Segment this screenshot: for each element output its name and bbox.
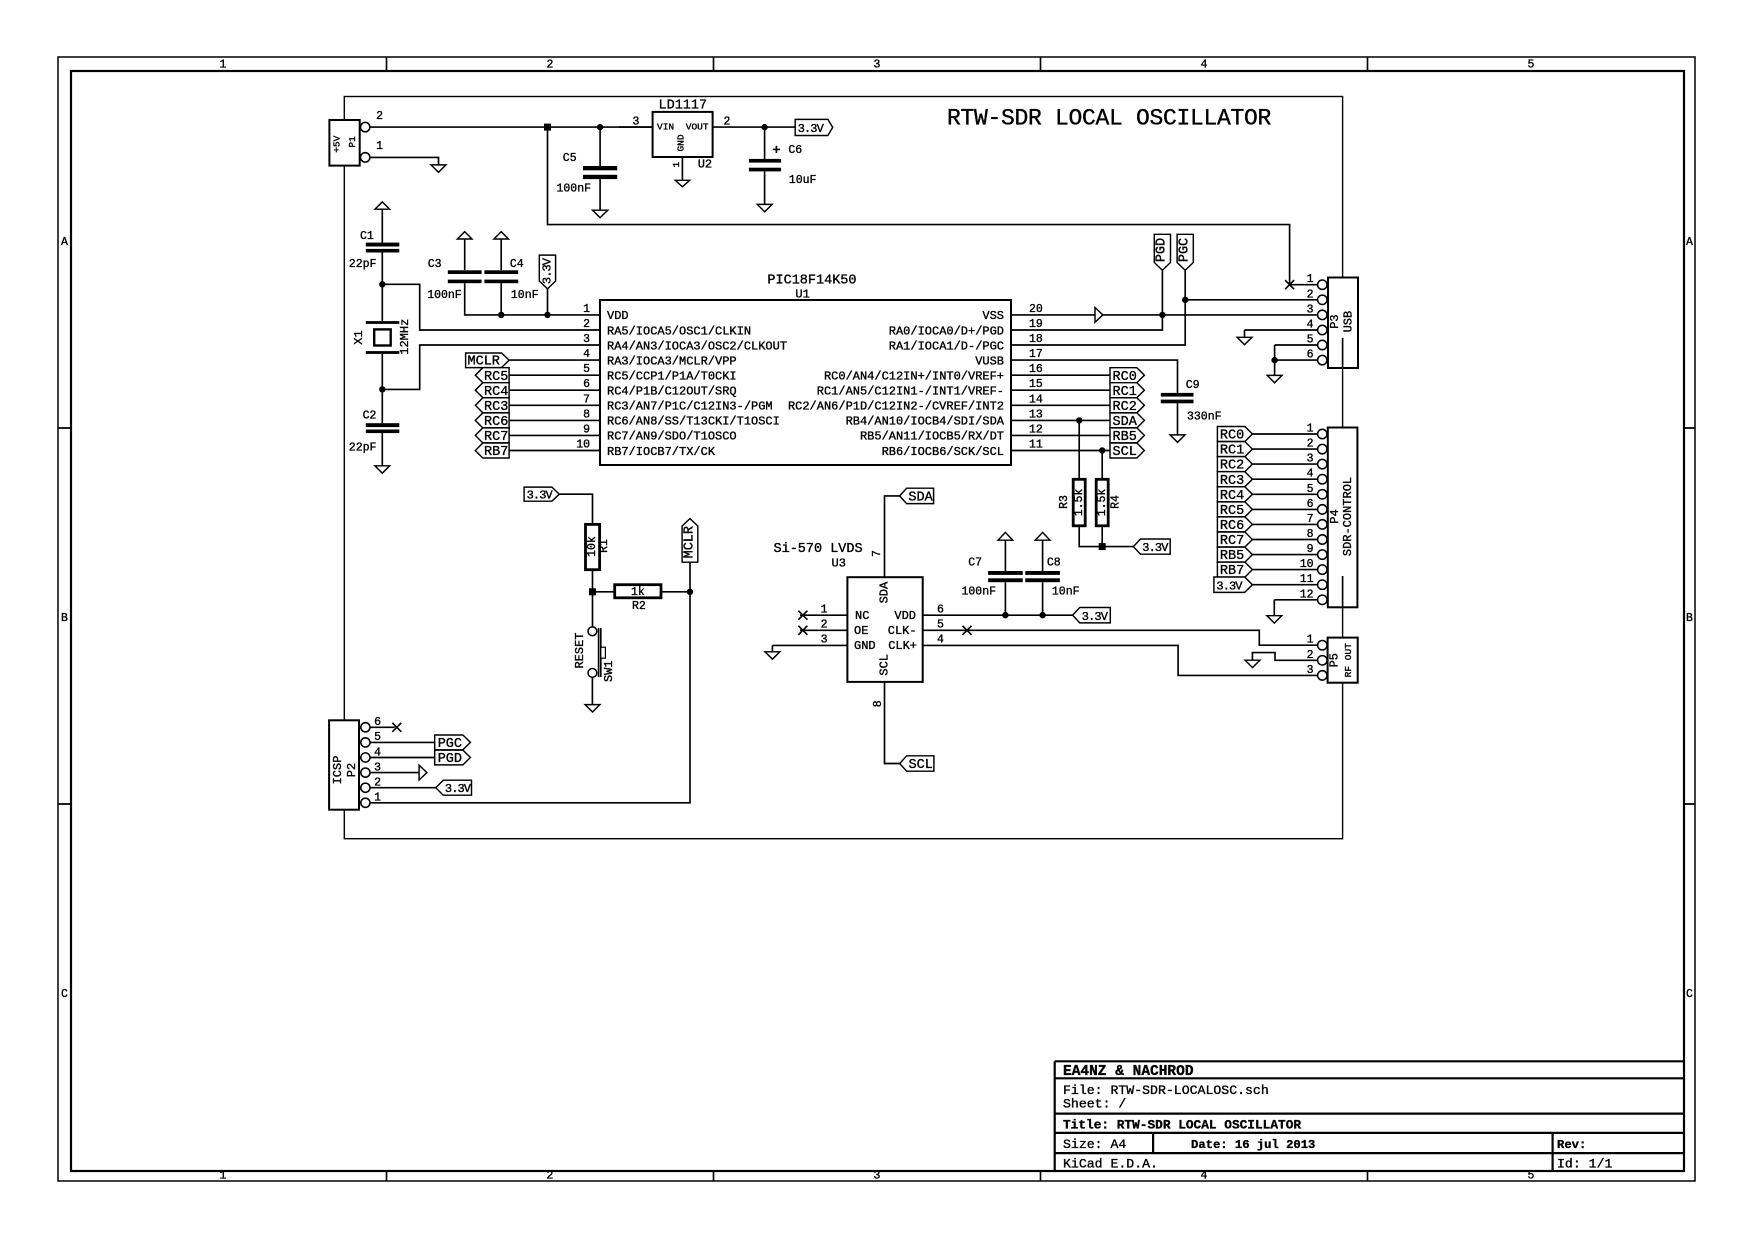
svg-text:C9: C9 [1186,379,1200,392]
svg-text:10: 10 [576,439,590,452]
global label RC5 at P4 pin6 [1217,502,1252,517]
ground symbol under P3 pin6 [1267,375,1282,382]
svg-text:10nF: 10nF [1052,586,1080,599]
svg-text:1k: 1k [631,586,645,599]
svg-text:2: 2 [724,115,731,128]
junction OSC2 node [379,386,385,392]
power arrow above C3 [457,232,472,239]
svg-text:PGD: PGD [1155,238,1170,262]
svg-text:3: 3 [583,333,590,346]
ground symbol at P1 pin1 [431,165,446,172]
wire P5 pin2 to ground [1252,653,1317,661]
svg-text:C5: C5 [563,152,577,165]
svg-text:RESET: RESET [573,632,587,668]
svg-text:SDA: SDA [908,491,933,506]
global label SDA at U1 pin13 [1110,413,1144,428]
global label MCLR at U1 pin4 [466,353,510,368]
ground symbol on VSS wire (pointing right) [1095,308,1103,323]
P3 pin 6 [1318,355,1327,364]
P2 pin 2 [361,783,370,792]
svg-text:RA4/AN3/IOCA3/OSC2/CLKOUT: RA4/AN3/IOCA3/OSC2/CLKOUT [607,339,787,353]
wire R1 to junction [592,570,594,592]
ground symbol at U3 pin3 [765,652,780,659]
svg-text:C4: C4 [510,258,524,271]
svg-text:1: 1 [1307,273,1314,286]
svg-text:SDA: SDA [877,581,891,603]
ground symbol at P5 pin2 [1245,660,1260,667]
connector P3 body [1328,278,1358,369]
svg-text:1.5k: 1.5k [1073,489,1086,517]
junction SCL at R4 [1099,447,1105,453]
svg-text:Size: A4: Size: A4 [1063,1137,1126,1152]
global label PGD (vertical) [1154,234,1170,270]
wire C4 to VDD rail [500,283,502,315]
U1 pin 18 wire to PGC net [1011,270,1185,345]
switch SW1 RESET [592,592,594,627]
svg-text:R4: R4 [1110,495,1123,509]
global label RC7 at U1 pin9 [475,428,509,443]
junction SDA at R3 [1076,417,1082,423]
svg-text:VDD: VDD [607,309,629,323]
svg-text:RF OUT: RF OUT [1343,643,1354,678]
crystal X1 [366,321,400,324]
svg-text:330nF: 330nF [1187,411,1222,424]
junction VDD at C7 [1002,612,1008,618]
border row ticks left [58,428,71,804]
P3 pin 5 [1318,340,1327,349]
power flag 3.3V (pull-ups) [1133,539,1170,554]
power arrow above C4 [494,232,509,239]
svg-text:5: 5 [1307,334,1314,347]
svg-text:B: B [61,612,68,625]
global label RC0 at P4 pin1 [1217,427,1252,442]
power flag 3.3V (regulator output) [795,119,833,135]
global label PGC at P2 [435,735,471,750]
svg-text:P5: P5 [1328,653,1342,667]
svg-text:RC6/AN8/SS/T13CKI/T1OSCI: RC6/AN8/SS/T13CKI/T1OSCI [607,415,780,429]
svg-text:2: 2 [547,59,554,72]
P5 pin 1 [1318,641,1327,650]
svg-text:8: 8 [1307,528,1314,541]
P3 pin 1 [1318,280,1327,289]
svg-text:RA1/IOCA1/D-/PGC: RA1/IOCA1/D-/PGC [889,339,1004,353]
svg-text:VUSB: VUSB [975,354,1004,368]
ground symbol under C5 [593,210,608,217]
junction 3.3V at C6 [761,124,767,130]
U3 pin 6 VDD wire [923,614,1073,616]
P2 pin 6 [361,723,370,732]
U1 pin 11 wire [1011,450,1110,452]
U3 pin 8 SCL wire [885,682,900,764]
svg-text:PIC18F14K50: PIC18F14K50 [767,273,856,288]
U3 pin 1 NC wire [800,614,847,616]
global label RC3 at U1 pin7 [475,398,509,413]
connector P2 ICSP body [329,720,359,809]
svg-text:2: 2 [1307,288,1314,301]
U1 pin 15 wire [1011,389,1110,391]
svg-text:P1: P1 [347,136,358,148]
svg-text:4: 4 [1201,59,1208,72]
svg-text:1: 1 [220,1170,227,1183]
U1 pin 5 wire [509,374,600,376]
svg-text:Title: RTW-SDR LOCAL OSCILLATO: Title: RTW-SDR LOCAL OSCILLATOR [1063,1117,1301,1132]
IC U1 PIC18F14K50 [600,300,1011,465]
svg-text:4: 4 [937,634,944,647]
P4 pin 3 [1318,459,1327,468]
wire +5V net from P1 pin2 to U2 VIN [370,126,653,128]
U3 pin 7 SDA wire [885,496,900,577]
U1 pin 10 wire [509,450,600,452]
svg-text:ICSP: ICSP [331,756,345,785]
svg-text:SCL: SCL [909,758,933,773]
svg-text:SW1: SW1 [602,660,616,682]
svg-text:15: 15 [1029,378,1043,391]
svg-text:6: 6 [937,604,944,617]
global label RC4 at P4 pin5 [1217,487,1252,502]
ground symbol at P3 pin4 [1237,337,1252,344]
wire MCLR flag down to P2 pin1 [370,562,690,803]
U2 pin 3 wire [619,126,653,128]
border row ticks right [1684,428,1695,804]
svg-text:11: 11 [1029,439,1043,452]
svg-text:RB7/IOCB7/TX/CK: RB7/IOCB7/TX/CK [607,445,716,459]
svg-text:100nF: 100nF [557,183,592,196]
svg-text:3: 3 [874,1170,881,1183]
svg-text:1: 1 [671,161,682,167]
global label SCL at U1 pin11 [1110,443,1144,458]
connector P1 [329,120,359,166]
P4 pin 10 [1318,565,1327,574]
svg-text:5: 5 [1307,483,1314,496]
svg-text:U3: U3 [832,557,846,571]
power flag 3.3V at R1 [524,487,559,501]
U1 pin 20 VSS wire to USB pin3 [1011,314,1318,316]
svg-text:RC3/AN7/P1C/C12IN3-/PGM: RC3/AN7/P1C/C12IN3-/PGM [607,400,773,414]
svg-text:P2: P2 [345,763,359,777]
svg-text:C1: C1 [360,230,374,243]
svg-text:RC2/AN6/P1D/C12IN2-/CVREF/INT2: RC2/AN6/P1D/C12IN2-/CVREF/INT2 [788,400,1004,414]
svg-text:RB5/AN11/IOCB5/RX/DT: RB5/AN11/IOCB5/RX/DT [860,430,1004,444]
U1 pin 14 wire [1011,404,1110,406]
svg-text:VOUT: VOUT [686,122,709,133]
svg-text:8: 8 [872,700,885,707]
svg-text:9: 9 [1307,543,1314,556]
global label SCL at U3 [900,756,934,771]
global label RB7 at U1 pin10 [475,443,509,458]
P4 pin 4 [1318,475,1327,484]
svg-text:R3: R3 [1058,495,1071,509]
svg-text:5: 5 [583,363,590,376]
svg-text:RA5/IOCA5/OSC1/CLKIN: RA5/IOCA5/OSC1/CLKIN [607,324,751,338]
no-connect X at P2 pin6 [392,723,401,732]
wire R2 to MCLR net [661,591,690,593]
wire C5 to ground [599,179,601,210]
capacitor C5 [599,127,601,166]
svg-text:RA3/IOCA3/MCLR/VPP: RA3/IOCA3/MCLR/VPP [607,354,737,368]
svg-text:1: 1 [821,604,828,617]
global label RB5 at U1 pin12 [1110,428,1144,443]
svg-text:C: C [1686,988,1693,1001]
resistor R4 [1101,451,1103,547]
svg-text:Id: 1/1: Id: 1/1 [1557,1157,1612,1172]
U3 pin 3 GND wire [772,645,847,651]
svg-text:12: 12 [1029,423,1043,436]
junction OSC1 node [379,281,385,287]
resistor R1 [586,524,600,569]
svg-text:Rev:: Rev: [1557,1138,1586,1152]
capacitor C6 (polarized) [764,127,766,159]
svg-text:RB4/AN10/IOCB4/SDI/SDA: RB4/AN10/IOCB4/SDI/SDA [846,415,1005,429]
junction VDD at C4 [498,312,504,318]
svg-text:VIN: VIN [657,122,674,133]
svg-text:C: C [61,988,68,1001]
global label RC1 at P4 pin2 [1217,442,1252,457]
regulator U2 LD1117 [653,112,713,157]
U3 pin 2 OE wire [800,629,847,631]
ground symbol under U2 [675,180,690,187]
wire C9 to ground [1177,403,1179,435]
U2 pin 2 wire [713,126,796,128]
svg-text:C2: C2 [363,410,377,423]
svg-text:3: 3 [1307,453,1314,466]
no-connect X on CLK- wire [963,626,972,635]
capacitor C2 [366,423,400,427]
capacitor C4 [484,270,518,274]
svg-text:4: 4 [1201,1170,1208,1183]
svg-text:RC1/AN5/C12IN1-/INT1/VREF-: RC1/AN5/C12IN1-/INT1/VREF- [817,385,1004,399]
svg-text:3.3V: 3.3V [527,489,554,503]
wire R3/R4 to 3.3V flag [1102,546,1133,548]
wire C6 to ground [764,171,766,204]
global label RC4 at U1 pin6 [475,383,509,398]
U1 pin 4 wire from MCLR flag [509,359,600,361]
ground symbol under C6 [757,204,772,211]
P3 pin 4 [1318,325,1327,334]
svg-text:R2: R2 [632,600,646,613]
svg-text:NC: NC [855,609,869,623]
U2 pin 1 (GND) [681,157,683,180]
svg-text:12MHz: 12MHz [398,319,412,355]
global label RB5 at P4 pin9 [1217,547,1252,562]
junction MCLR divider (square) [589,588,596,595]
P2 pin 5 [361,738,370,747]
svg-text:3.3V: 3.3V [798,122,825,136]
U1 pin 8 wire [509,419,600,421]
svg-text:3.3V: 3.3V [1082,610,1109,624]
svg-text:7: 7 [1307,513,1314,526]
global label PGC (vertical) [1177,234,1193,270]
global label RC5 at U1 pin5 [475,368,509,383]
connector P5 body [1328,638,1358,683]
svg-text:22pF: 22pF [349,258,377,271]
svg-text:PGC: PGC [1178,238,1193,262]
no-connect X on USB VBUS corner [1285,280,1294,289]
svg-text:2: 2 [1307,438,1314,451]
ground symbol at P2 pin3 (pointing right) [419,765,427,780]
P4 pin 5 [1318,490,1327,499]
svg-text:8: 8 [583,408,590,421]
wire +5V branch down and across to USB VBUS [548,127,1318,285]
svg-text:U1: U1 [795,288,809,302]
junction +5V at C5 stem [597,124,603,130]
ground symbol under C9 [1170,435,1185,442]
svg-text:Date: 16 jul 2013: Date: 16 jul 2013 [1191,1138,1315,1152]
wire X1 to C2 [381,354,383,423]
svg-text:VDD: VDD [894,609,916,623]
svg-text:C3: C3 [428,258,442,271]
svg-text:2: 2 [583,318,590,331]
svg-text:EA4NZ & NACHROD: EA4NZ & NACHROD [1063,1064,1194,1080]
no-connect X at U3 pin1 [798,611,807,620]
title block frame [1055,1061,1684,1171]
svg-text:13: 13 [1029,408,1043,421]
svg-text:2: 2 [821,619,828,632]
svg-text:RC7/AN9/SDO/T1OSCO: RC7/AN9/SDO/T1OSCO [607,430,737,444]
svg-text:3: 3 [1307,664,1314,677]
svg-text:1: 1 [374,792,381,805]
svg-text:VSS: VSS [982,309,1004,323]
svg-text:3.3V: 3.3V [445,782,472,796]
power flag 3.3V (vertical, above U1 VDD) [539,255,555,289]
wire C8 to VDD [1042,582,1044,615]
svg-text:2: 2 [1307,649,1314,662]
resistor R2 [615,585,661,598]
wire CLK+ to P5 pin3 [923,645,1318,675]
svg-text:18: 18 [1029,333,1043,346]
svg-text:P3: P3 [1328,314,1342,328]
global label RC7 at P4 pin8 [1217,532,1252,547]
U1 right pin numbers [1029,303,1043,452]
svg-text:MCLR: MCLR [682,526,697,558]
power flag 3.3V at U3 VDD [1073,608,1111,623]
wire CLK- to P5 pin1 [923,630,1318,645]
P2 pin 4 [361,753,370,762]
ground symbol at P4 pin12 [1267,616,1282,623]
global label PGD at P2 [435,750,471,765]
power arrow above C1 [375,202,390,209]
svg-text:3.3V: 3.3V [1216,579,1243,593]
P4 pin 1 [1318,429,1327,438]
P4 pin 6 [1318,505,1327,514]
global label SDA at U3 [900,488,934,503]
svg-text:7: 7 [871,550,884,557]
svg-text:4: 4 [1307,319,1314,332]
U1 pin 7 wire [509,404,600,406]
svg-text:16: 16 [1029,363,1043,376]
svg-text:RC4/P1B/C12OUT/SRQ: RC4/P1B/C12OUT/SRQ [607,385,737,399]
P4 pin 12 [1318,595,1327,604]
resistor R3 [1079,420,1102,546]
connector P3 USB pin wires [1185,300,1317,376]
svg-text:12: 12 [1300,588,1314,601]
global label RB7 at P4 pin10 [1217,562,1252,577]
svg-text:+5V: +5V [331,135,342,152]
P1 pin 2 [361,122,370,131]
svg-text:10nF: 10nF [511,289,539,302]
svg-text:3.3V: 3.3V [1142,541,1169,555]
svg-text:11: 11 [1300,573,1314,586]
svg-text:USB: USB [1341,311,1355,333]
svg-text:10uF: 10uF [789,174,817,187]
power arrow above C8 [1035,532,1050,540]
svg-text:RB7: RB7 [484,445,508,460]
IC U3 Si-570 [847,577,922,682]
U1 left pin names [607,309,787,459]
wire OSC1 to U1 pin2 [382,284,600,330]
capacitor C7 [988,571,1023,575]
svg-text:4: 4 [583,348,590,361]
svg-text:17: 17 [1029,348,1043,361]
svg-text:A: A [61,236,68,249]
svg-text:C6: C6 [788,144,802,157]
P3 pin 2 [1318,295,1327,304]
ground symbol under SW1 [585,705,600,712]
U1 pin 16 wire [1011,374,1110,376]
power flag 3.3V at P4 pin11 [1214,577,1253,592]
global label RC6 at U1 pin8 [475,413,509,428]
wire C1 to X1 [381,253,383,322]
svg-text:SDR-CONTROL: SDR-CONTROL [1341,477,1355,556]
svg-text:SCL: SCL [877,654,891,676]
power arrow above C7 [998,532,1013,540]
junction VDD at 3.3V flag [544,312,550,318]
P4 pin 8 [1318,535,1327,544]
junction VDD at C8 [1039,612,1045,618]
P5 pin 2 [1318,656,1327,665]
svg-text:2: 2 [376,110,383,123]
wire SW1 to ground [591,677,593,704]
wire P1 pin1 to ground [370,157,439,165]
svg-text:9: 9 [583,423,590,436]
svg-text:C8: C8 [1047,557,1061,570]
U1 right pin names [788,309,1005,459]
global label RC6 at P4 pin7 [1217,517,1252,532]
wire boundary through P4 [1342,576,1344,607]
U1 pin 12 wire [1011,434,1110,436]
svg-text:SCL: SCL [1113,445,1137,460]
U1 pin 19 wire to PGD net [1011,270,1162,330]
svg-text:GND: GND [676,134,687,151]
svg-text:1.5k: 1.5k [1096,489,1109,517]
svg-text:P4: P4 [1328,509,1342,523]
svg-text:GND: GND [854,639,876,653]
svg-text:1: 1 [220,59,227,72]
svg-text:Sheet: /: Sheet: / [1063,1097,1126,1112]
svg-text:RA0/IOCA0/D+/PGD: RA0/IOCA0/D+/PGD [889,324,1004,338]
svg-text:KiCad E.D.A.: KiCad E.D.A. [1063,1157,1158,1172]
U1 left pin numbers [576,303,590,452]
svg-text:RB6/IOCB6/SCK/SCL: RB6/IOCB6/SCK/SCL [882,445,1004,459]
svg-text:10: 10 [1300,558,1314,571]
svg-text:A: A [1686,236,1693,249]
P2 pin 1 [361,798,370,807]
wire C2 to ground [381,433,383,466]
svg-text:X1: X1 [352,330,366,344]
P5 pin 3 [1318,671,1327,680]
global label RC0 at U1 pin16 [1110,368,1144,383]
junction PGD at VSS crossing [1159,312,1165,318]
schematic boundary rectangle [344,97,1342,839]
svg-text:1: 1 [583,303,590,316]
svg-text:3: 3 [821,634,828,647]
svg-text:100nF: 100nF [427,289,462,302]
P4 pin 7 [1318,520,1327,529]
border column ticks bottom [387,1171,1368,1181]
capacitor C3 [448,270,482,274]
svg-text:B: B [1686,612,1693,625]
svg-text:R1: R1 [598,539,611,553]
connector P4 wires [1252,434,1317,616]
